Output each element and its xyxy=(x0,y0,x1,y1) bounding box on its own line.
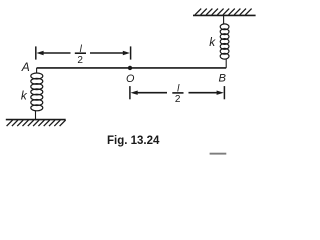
dimension l/2 (bottom): left tick xyxy=(129,86,131,99)
svg-text:Fig. 13.24: Fig. 13.24 xyxy=(107,135,160,147)
dimension l/2 (top): line segments xyxy=(42,52,71,54)
rod AB xyxy=(37,67,227,69)
dimension l/2 (bottom): left arrow xyxy=(131,91,138,95)
dimension l/2 (top): left arrow xyxy=(36,51,43,55)
ground (bottom left) line xyxy=(6,119,66,121)
svg-text:2: 2 xyxy=(175,94,181,105)
spring k (left), top stub xyxy=(36,68,38,74)
svg-text:2: 2 xyxy=(77,55,83,66)
dimension l/2 (top): fraction bar xyxy=(75,52,86,54)
ceiling hatching xyxy=(195,9,252,15)
spring k (right), top stub xyxy=(223,15,225,24)
dimension l/2 (bottom): right arrow xyxy=(217,91,224,95)
dimension l/2 (top): left tick xyxy=(35,46,37,59)
spring k (right), bottom stub xyxy=(225,59,227,68)
dimension l/2 (bottom): line segments xyxy=(136,92,167,94)
spring k (left), bottom stub xyxy=(35,111,37,120)
dimension l/2 (top): right arrow xyxy=(123,51,130,55)
svg-text:O: O xyxy=(126,73,135,85)
node O xyxy=(128,66,132,70)
dimension l/2 (bottom): right tick xyxy=(223,86,225,99)
spring k (left), coil xyxy=(31,73,43,111)
ground hatching xyxy=(7,120,66,126)
svg-text:B: B xyxy=(218,73,226,85)
ceiling (top right) line xyxy=(193,14,256,16)
dimension l/2 (bottom): fraction bar xyxy=(172,92,183,94)
svg-text:A: A xyxy=(21,60,30,74)
cropped grey mark (bottom right) xyxy=(210,153,227,155)
spring k (right), coil xyxy=(220,24,229,59)
dimension l/2 (top): right tick xyxy=(130,46,132,59)
